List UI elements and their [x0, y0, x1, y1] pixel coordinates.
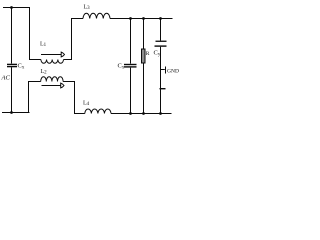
wire L2 to bottom-right rail [63, 82, 85, 114]
inductor L1 [41, 60, 64, 64]
svg-text:R: R [146, 51, 150, 57]
svg-text:L2: L2 [41, 69, 48, 76]
capacitor Cy [155, 41, 167, 47]
ground stub wire [161, 69, 165, 71]
wire bottom-left rail [2, 112, 30, 114]
svg-text:L3: L3 [84, 5, 91, 12]
wire top-left rail [3, 7, 30, 9]
wire Cy branch upper [160, 19, 162, 41]
L1 current direction arrow [41, 54, 61, 56]
node dot top x143 [142, 17, 145, 20]
wire Cy branch lower [160, 47, 162, 114]
wire bottom-right rail [111, 113, 172, 115]
wire R branch lower [143, 63, 145, 114]
wire left vertical from L2 down [29, 82, 41, 113]
resistor R [142, 49, 146, 63]
tick plate on Cy branch [160, 88, 166, 89]
capacitor Cx1 [7, 64, 17, 68]
svg-text:L4: L4 [83, 101, 90, 108]
ground bar [165, 67, 167, 74]
node dot top x130 [129, 17, 132, 20]
capacitor Cx2 [124, 64, 137, 68]
node dot bottom x130 [129, 112, 132, 115]
node dot bottom x143 [142, 112, 145, 115]
wire Cx2 branch lower [130, 68, 132, 114]
wire AC branch upper [11, 8, 13, 64]
wire left vertical to L1 [30, 8, 41, 60]
wire Cx2 branch upper [130, 19, 132, 64]
wire top-right rail [110, 18, 173, 20]
L2 current direction arrow [42, 85, 61, 87]
node junction bottom-left [10, 111, 13, 114]
node dot top x160 [159, 17, 162, 20]
wire L1 to top rail [64, 19, 84, 60]
svg-text:Cx: Cx [118, 63, 125, 71]
inductor L3 [83, 13, 110, 18]
inductor L4 [85, 109, 111, 114]
svg-text:Cy: Cy [154, 50, 161, 58]
wire AC branch lower [11, 67, 13, 112]
svg-text:L1: L1 [40, 42, 47, 49]
svg-text:AC: AC [1, 75, 11, 82]
svg-text:Cx: Cx [18, 63, 25, 71]
svg-text:GND: GND [167, 69, 179, 75]
inductor L2 [41, 77, 63, 82]
node junction top-left [10, 6, 13, 9]
node dot bottom x160 [159, 112, 162, 115]
wire R branch upper [143, 19, 145, 50]
